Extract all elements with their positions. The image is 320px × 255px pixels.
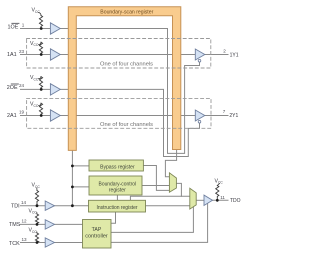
svg-text:Boundary-control: Boundary-control	[99, 181, 137, 187]
wire 2A1 channel row	[21, 115, 229, 117]
TAP controller box	[83, 220, 112, 249]
svg-text:11: 11	[220, 195, 225, 200]
svg-text:13: 13	[22, 237, 28, 242]
boundary-control register box	[89, 176, 142, 195]
Vcc label TDI	[32, 183, 41, 191]
wire TAP controller to mux M2 select	[111, 207, 193, 232]
Vcc label TDO	[215, 178, 224, 185]
svg-text:23: 23	[19, 49, 25, 54]
svg-text:One of four channels: One of four channels	[100, 122, 153, 128]
svg-text:2Y1: 2Y1	[229, 113, 238, 119]
svg-text:12: 12	[22, 219, 28, 224]
svg-text:TMS: TMS	[9, 222, 21, 228]
resistor R4 (2A1 pull-up)	[39, 103, 42, 115]
mux M2	[190, 188, 196, 209]
svg-text:TDO: TDO	[230, 198, 241, 204]
wire bypass register output to mux M1	[143, 166, 169, 191]
channel group 2 dashed box	[27, 98, 211, 128]
wire TCK row	[21, 242, 83, 244]
svg-text:19: 19	[19, 110, 25, 115]
Vcc label row 1	[32, 8, 42, 16]
node: TMS pull-up junction	[36, 223, 39, 226]
wire TAP controller to TDO buffer enable	[111, 203, 208, 242]
wire mux M2 output to TDO buffer	[196, 199, 204, 201]
node: scan trunk to bypass register	[71, 165, 74, 168]
svg-text:Bypass register: Bypass register	[100, 165, 135, 171]
Vcc label row 4	[30, 102, 41, 108]
svg-text:2OE: 2OE	[7, 85, 18, 91]
label 2OE with overline	[7, 84, 19, 91]
svg-text:TAP: TAP	[92, 227, 102, 233]
mux M1	[169, 173, 176, 192]
wire bypass register input	[72, 165, 89, 167]
wire 1A1 channel row	[21, 54, 229, 56]
Vcc label row 2	[30, 41, 41, 47]
svg-text:1A1: 1A1	[7, 52, 17, 58]
resistor R7 (TCK pull-up)	[35, 233, 38, 243]
node: TDO pull-up junction	[216, 199, 219, 202]
svg-text:register: register	[109, 187, 126, 193]
wire boundary-scan register output to mux M1	[165, 150, 176, 177]
buffer U3 (2OE input)	[50, 84, 60, 95]
svg-text:2A1: 2A1	[7, 113, 17, 119]
three-state output buffer U6 (2Y1)	[195, 110, 205, 123]
resistor R5 (TDI pull-up)	[35, 191, 38, 206]
bypass register box	[89, 160, 143, 171]
node: 1OE pull-up junction	[40, 27, 43, 30]
resistor R3 (2OE pull-up)	[39, 77, 42, 90]
buffer U4 (2A1 input)	[50, 110, 60, 121]
svg-text:1: 1	[22, 22, 25, 27]
buffer U1 (1OE input)	[50, 23, 60, 34]
wire TDO output	[213, 199, 229, 201]
wire instruction register parallel output to mux M2	[130, 196, 189, 200]
boundary-scan register band	[68, 7, 181, 151]
Vcc label TCK	[29, 228, 38, 234]
svg-text:24: 24	[19, 83, 25, 88]
node: 2A1 pull-up junction	[40, 114, 43, 117]
svg-text:14: 14	[21, 200, 27, 205]
resistor R2 (1A1 pull-up)	[39, 42, 42, 54]
three-state output buffer U5 (1Y1)	[195, 49, 205, 62]
wire TDI scan-in trunk	[71, 150, 73, 206]
buffer U2 (1A1 input)	[50, 49, 60, 60]
wire instruction register output to mux M2	[146, 205, 190, 207]
buffer U8 (TMS input)	[45, 220, 54, 229]
svg-text:Boundary-scan register: Boundary-scan register	[100, 10, 153, 16]
instruction register box	[89, 200, 146, 212]
wire boundary-control register to instruction register	[116, 195, 118, 200]
svg-text:1Y1: 1Y1	[230, 52, 239, 58]
svg-text:1OE: 1OE	[8, 25, 19, 31]
svg-text:controller: controller	[85, 233, 108, 239]
node: scan trunk to boundary-control register	[71, 186, 74, 189]
wire boundary-control register input	[72, 186, 89, 188]
svg-text:TDI: TDI	[11, 203, 20, 209]
buffer U9 (TCK input)	[45, 238, 54, 247]
resistor R1 (1OE pull-up)	[39, 16, 42, 29]
node: 2OE pull-up junction	[40, 88, 43, 91]
node: scan trunk to TDI row	[71, 204, 74, 207]
channel group 1 dashed box	[27, 39, 211, 69]
wire mux M1 output to mux M2	[176, 183, 181, 196]
node: 1A1 pull-up junction	[40, 53, 43, 56]
node: TCK pull-up junction	[36, 241, 39, 244]
svg-text:7: 7	[223, 109, 226, 114]
Vcc label row 3	[30, 75, 41, 81]
label 1OE with overline	[8, 23, 20, 30]
svg-text:2: 2	[223, 48, 226, 53]
Vcc label TMS	[29, 208, 38, 214]
svg-text:Instruction register: Instruction register	[97, 205, 138, 211]
wire TDI row	[21, 205, 90, 207]
wire TMS row	[21, 223, 83, 225]
node: TDI pull-up junction	[36, 204, 39, 207]
svg-text:One of four channels: One of four channels	[100, 61, 153, 67]
wire 1OE row and enable loop to 1Y1 bubble	[21, 29, 200, 154]
wire boundary-control register output to mux M1	[142, 185, 169, 187]
resistor R6 (TMS pull-up)	[35, 214, 38, 224]
buffer U10 (TDO output)	[204, 195, 213, 205]
wire 2OE row and enable loop to 2Y1 bubble	[21, 89, 200, 156]
buffer U7 (TDI input)	[45, 201, 54, 210]
wire instruction register to TAP controller	[111, 212, 116, 223]
svg-text:TCK: TCK	[9, 241, 20, 247]
resistor R8 (TDO pull-up)	[216, 186, 219, 201]
